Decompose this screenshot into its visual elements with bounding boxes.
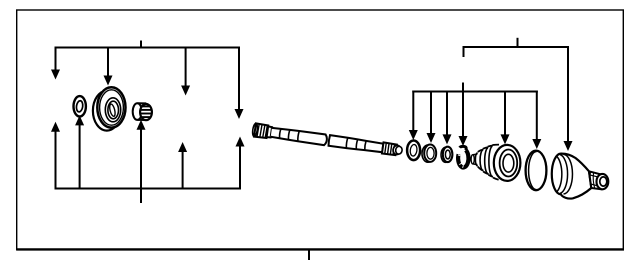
callout arrow R5 bbox=[501, 91, 510, 145]
callout arrow B1 bbox=[51, 122, 60, 190]
spacer ring (left small ring) bbox=[74, 96, 86, 116]
callout arrow R4 bbox=[459, 91, 468, 147]
left bottom callout bracket bbox=[55, 189, 242, 204]
callout arrow B2 bbox=[75, 115, 84, 189]
callout arrow R3 bbox=[443, 91, 452, 145]
splined left end bbox=[254, 123, 268, 138]
outer CV joint bbox=[552, 154, 609, 199]
ring B bbox=[422, 145, 436, 163]
wheel bearing bbox=[93, 87, 126, 130]
callout arrow B3 bbox=[137, 120, 146, 190]
left top callout bracket bbox=[55, 41, 241, 48]
callout arrow L3 bbox=[181, 47, 190, 96]
shaft first half bbox=[271, 127, 328, 145]
ring C bbox=[441, 147, 452, 163]
callout arrow L1 bbox=[51, 47, 60, 80]
snap ring bbox=[458, 146, 469, 168]
callout arrow R1 bbox=[409, 91, 418, 141]
shaft second half bbox=[328, 135, 383, 153]
border bottom edge (thicker) bbox=[16, 248, 624, 250]
axle shaft bbox=[252, 123, 403, 157]
collar bbox=[267, 126, 272, 137]
right upper callout bracket bbox=[463, 38, 570, 57]
right lower callout bracket bbox=[412, 83, 538, 92]
callout arrow B5 bbox=[236, 137, 245, 190]
callout arrow L4 bbox=[235, 47, 244, 120]
CV boot bbox=[471, 145, 520, 181]
callout arrow B4 bbox=[178, 142, 187, 190]
splined spacer cylinder bbox=[133, 103, 152, 120]
callout arrow R7 (outer joint) bbox=[564, 46, 573, 151]
dust cap bbox=[526, 151, 547, 191]
bottom callout tick bbox=[308, 250, 310, 261]
stub shaft bbox=[589, 171, 602, 189]
callout arrow R2 bbox=[427, 91, 436, 144]
washer A bbox=[407, 141, 420, 161]
splined right end bbox=[382, 142, 397, 155]
callout arrow L2 bbox=[104, 47, 113, 86]
callout arrow R6 bbox=[532, 91, 541, 150]
